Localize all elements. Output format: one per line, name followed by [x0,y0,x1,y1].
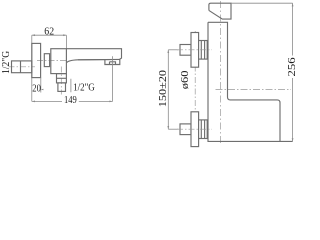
upper nut facets [200,41,202,60]
arrow 256 bottom [292,138,294,141]
svg-text:1/2"G: 1/2"G [73,82,95,93]
arrow 150 top [167,50,169,53]
label leader line [70,79,72,93]
spout bottom straight [78,58,120,60]
dimension 149 line [32,100,62,102]
svg-text:256: 256 [287,57,298,76]
upper escutcheon [191,33,199,68]
outlet nipple [58,83,66,92]
upper flange pipe [180,45,191,56]
inlet centerline [9,66,36,68]
svg-text:149: 149 [64,95,77,106]
wall plate (escutcheon side view) [32,43,41,77]
dimension 150±20 line [167,50,169,129]
inlet pipe 1/2"G [12,61,32,73]
wall reference extension line [31,35,33,101]
connector union [44,54,49,67]
valve body [51,49,67,74]
dimension 256 line [292,3,294,55]
lower nut facets [200,120,202,139]
dimension 20 extension [40,78,42,93]
arrow 256 top [292,3,294,6]
dimension 256 top extension [231,2,293,4]
inlet pipe divider [20,61,22,73]
arrow 62 left [32,34,35,36]
dimension 62 line [32,34,67,36]
escutcheon axis centerline [194,31,196,147]
bottom outlet [57,74,67,83]
arrow 20 right [41,89,44,91]
lower flange centerline [168,128,178,130]
aerator axis / 149 extension [112,56,114,101]
upper nut [199,41,208,60]
lower escutcheon [191,112,199,147]
lower flange pipe [180,124,191,135]
arrow 62 right [63,34,66,36]
outlet centerline [60,67,62,95]
spout centerline [216,89,292,91]
outlet ring line [57,77,67,79]
svg-text:1/2"G: 1/2"G [1,51,12,74]
aerator inner [110,62,116,65]
arrow 149 left [32,101,35,103]
upper flange centerline [168,49,178,51]
svg-text:62: 62 [44,26,54,37]
svg-text:ø60: ø60 [180,71,191,90]
arrow 150 bottom [167,126,169,129]
dimension 62 right extension [65,35,67,49]
aerator housing [105,60,120,65]
body centerline [37,60,68,62]
svg-text:20: 20 [32,84,41,95]
lower nut [199,120,208,139]
svg-text:150±20: 150±20 [158,70,169,107]
arrow 149 right [109,101,112,103]
column centerline [220,1,222,145]
handle (plan) [209,3,231,19]
spout outline [66,49,121,63]
body column + spout bar outline [208,22,293,141]
